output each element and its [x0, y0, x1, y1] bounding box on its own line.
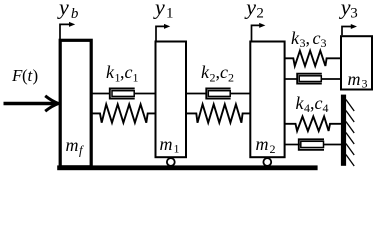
roller under m_2: [263, 158, 271, 166]
roller under m_1: [167, 158, 175, 166]
svg-text:y: y: [244, 0, 256, 20]
displacement arrow y_b: [60, 22, 75, 40]
svg-text:m: m: [160, 134, 173, 154]
label F(t): [11, 66, 38, 85]
force arrow F(t): [4, 96, 59, 111]
label k_1,c_1: [106, 62, 139, 85]
svg-text:m: m: [66, 135, 79, 155]
displacement arrow y_3: [342, 24, 357, 35]
svg-text:c: c: [125, 62, 133, 82]
wall (fixed support, right): [341, 95, 354, 166]
damper c1 (wire m_f to piston): [93, 89, 156, 99]
svg-text:1: 1: [133, 71, 139, 85]
svg-text:y: y: [339, 0, 351, 20]
svg-text:1: 1: [166, 5, 174, 21]
label y_3: [339, 0, 358, 21]
svg-text:1: 1: [174, 142, 180, 156]
svg-text:c: c: [313, 28, 321, 48]
mass m_1: [156, 42, 187, 158]
spring k3: [285, 51, 341, 66]
svg-text:4: 4: [323, 101, 329, 115]
svg-text:,: ,: [306, 28, 311, 48]
svg-text:y: y: [153, 0, 165, 20]
label k_3, c_3: [291, 28, 327, 50]
ground: [57, 165, 317, 170]
spring k4: [285, 117, 342, 132]
svg-text:3: 3: [362, 77, 368, 91]
svg-text:2: 2: [256, 5, 264, 21]
svg-text:m: m: [256, 134, 269, 154]
svg-text:3: 3: [321, 36, 327, 50]
label y_1: [153, 0, 174, 21]
label k_4, c_4: [296, 93, 329, 115]
svg-text:m: m: [348, 69, 361, 89]
svg-text:2: 2: [270, 142, 276, 156]
damper c2: [187, 89, 251, 99]
spring k1: [93, 104, 156, 122]
svg-text:b: b: [71, 6, 79, 22]
displacement arrow y_1: [156, 24, 170, 41]
displacement arrow y_2: [252, 23, 266, 41]
label y_2: [244, 0, 264, 21]
spring k2: [187, 104, 251, 122]
damper c3: [285, 74, 342, 84]
svg-text:c: c: [315, 93, 323, 113]
svg-text:y: y: [57, 0, 69, 20]
label k_2,c_2: [201, 62, 234, 85]
svg-text:2: 2: [228, 71, 234, 85]
mass m_3: [341, 36, 372, 90]
damper c4: [285, 139, 342, 150]
mass m_2: [250, 42, 284, 158]
label y_b: [57, 0, 79, 22]
svg-text:c: c: [220, 62, 228, 82]
svg-text:): ): [33, 66, 39, 85]
svg-text:3: 3: [350, 5, 358, 21]
mass m_f: [60, 40, 91, 167]
